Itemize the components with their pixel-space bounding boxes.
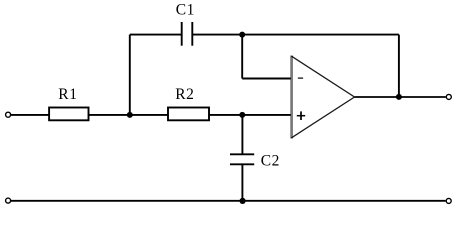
svg-text:R2: R2 — [175, 86, 194, 103]
svg-text:C2: C2 — [261, 153, 280, 170]
svg-text:C1: C1 — [176, 1, 195, 18]
svg-text:R1: R1 — [58, 86, 77, 103]
